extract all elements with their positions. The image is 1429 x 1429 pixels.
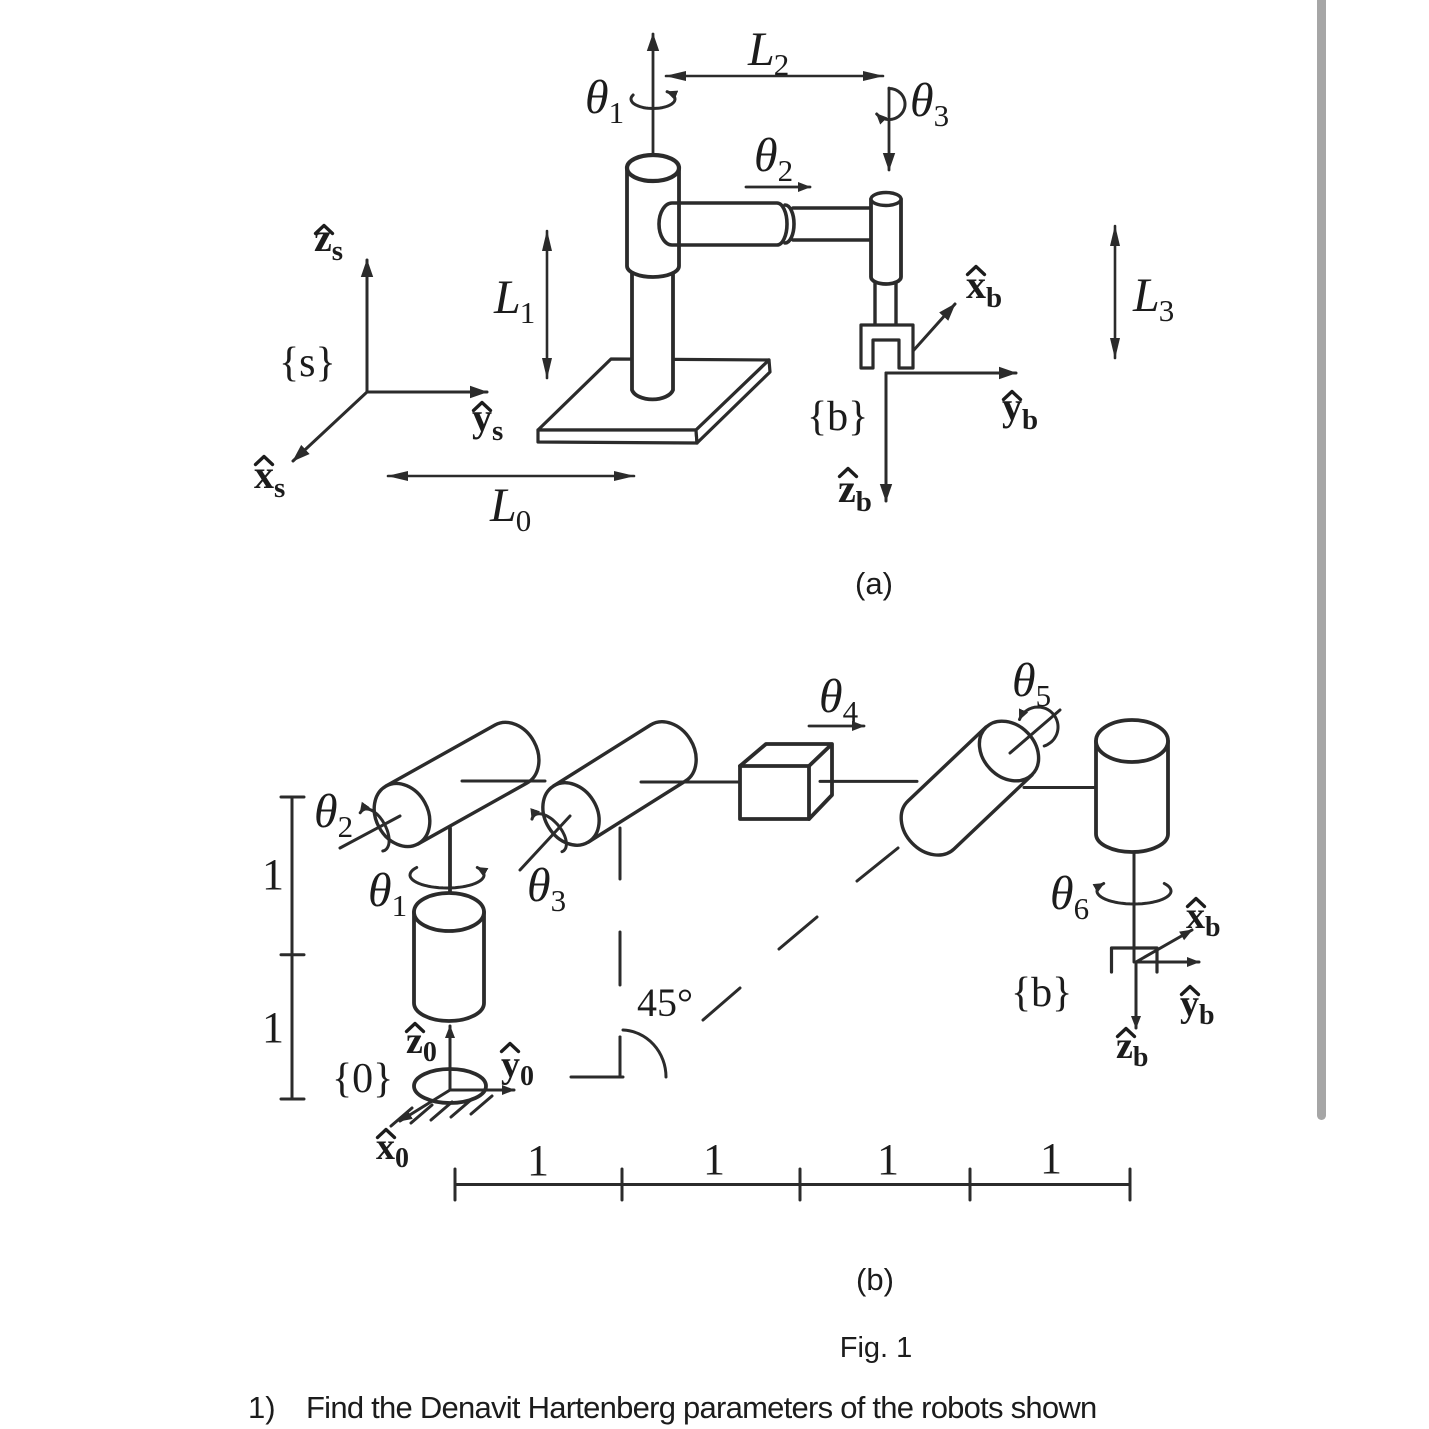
- corner and ground line 45: [571, 1037, 623, 1077]
- scale label 1 d: [1040, 1134, 1062, 1183]
- svg-text:ys: ys: [472, 395, 503, 447]
- label xb hat (b): [1186, 895, 1221, 943]
- label theta3: [910, 74, 949, 133]
- rotation symbol theta3: [520, 814, 570, 870]
- label theta3 (b): [527, 859, 566, 918]
- frame s axis zs: [366, 260, 369, 392]
- base plate right edge face: [696, 360, 770, 443]
- svg-text:1): 1): [248, 1390, 276, 1425]
- frame s axis xs: [293, 392, 367, 461]
- base cylinder top ellipse: [414, 893, 484, 931]
- axis line segment C cube to joint5: [820, 780, 917, 783]
- cylinder link6 top ellipse: [1096, 720, 1168, 762]
- link1 wide cylinder: [627, 168, 679, 277]
- angle arc 45: [623, 1030, 666, 1077]
- link3 lower rod: [875, 283, 896, 325]
- svg-text:(a): (a): [855, 566, 893, 601]
- svg-text:{s}: {s}: [279, 340, 336, 386]
- frame s axis ys: [367, 391, 487, 394]
- left dimension bar line: [281, 797, 304, 1099]
- frame 0 axis x0: [400, 1090, 450, 1121]
- svg-text:{0}: {0}: [332, 1056, 393, 1102]
- svg-text:1: 1: [262, 1003, 284, 1052]
- label theta4: [819, 670, 859, 729]
- arm link2 thick cylinder: [659, 203, 787, 245]
- arm sleeve joint arcs: [785, 205, 794, 243]
- scrollbar: [1317, 0, 1326, 1120]
- cylinder link6: [1096, 741, 1168, 852]
- svg-text:1: 1: [262, 850, 284, 899]
- frame b2 axis yb: [1136, 961, 1199, 964]
- label theta2: [754, 129, 793, 188]
- svg-text:Fig. 1: Fig. 1: [840, 1332, 913, 1364]
- svg-text:θ1: θ1: [585, 71, 624, 130]
- svg-text:L2: L2: [747, 23, 789, 82]
- svg-text:θ2: θ2: [754, 129, 793, 188]
- label 1 upper: [262, 850, 284, 899]
- label x0 hat: [376, 1126, 409, 1174]
- caption Fig. 1: [840, 1332, 913, 1364]
- frame b2 axis zb: [1135, 962, 1138, 1028]
- frame b2 axis xb: [1136, 930, 1192, 962]
- label theta2 (b): [314, 785, 353, 844]
- prismatic cube joint4: [740, 744, 832, 819]
- base cylinder (b): [414, 912, 484, 1021]
- label L3: [1132, 269, 1174, 328]
- link3 cylinder top ellipse: [871, 193, 901, 206]
- caption (b): [856, 1262, 894, 1297]
- label frame s: [279, 340, 336, 386]
- label yb hat (b): [1180, 983, 1215, 1031]
- label frame 0: [332, 1056, 393, 1102]
- link1 cylinder top ellipse: [627, 155, 679, 181]
- svg-text:zs: zs: [314, 215, 343, 267]
- rotation arrow theta1: [631, 92, 675, 109]
- cylinder joint3: [531, 722, 696, 856]
- arrow theta4: [809, 725, 864, 728]
- svg-text:θ3: θ3: [910, 74, 949, 133]
- rotation symbol theta2: [340, 809, 400, 851]
- label theta6: [1050, 867, 1089, 926]
- axis line segment D joint5 to link6: [1024, 786, 1098, 789]
- label zs hat: [314, 215, 343, 267]
- axis line theta6: [1133, 852, 1136, 962]
- frame b axis zb: [885, 373, 888, 501]
- ground disc: [414, 1069, 486, 1103]
- end effector bracket (b): [1112, 948, 1158, 972]
- dimension L2 double arrow: [666, 75, 883, 78]
- label xs hat: [254, 452, 285, 504]
- dashed diagonal 45 line: [703, 848, 898, 1020]
- column link0 cylinder: [632, 272, 673, 399]
- svg-text:{b}: {b}: [807, 394, 868, 440]
- rotation arrow theta1 (b): [410, 868, 484, 889]
- dimension L0 double arrow: [388, 475, 634, 478]
- ground hatching: [391, 1096, 492, 1126]
- label theta5: [1012, 654, 1051, 713]
- label y0 hat: [501, 1044, 534, 1093]
- frame 0 axis z0: [449, 1026, 452, 1090]
- label z0 hat: [406, 1020, 437, 1068]
- scale label 1 b: [703, 1135, 725, 1184]
- scale label 1 c: [877, 1135, 899, 1184]
- cylinder joint2: [363, 722, 539, 856]
- dimension L3 double arrow: [1114, 226, 1117, 358]
- gripper bracket: [861, 325, 913, 368]
- label yb hat: [1002, 384, 1038, 436]
- svg-text:Find the Denavit Hartenberg pa: Find the Denavit Hartenberg parameters o…: [306, 1390, 1097, 1425]
- link3 small cylinder: [871, 199, 901, 284]
- base plate front edge face: [538, 430, 697, 443]
- svg-text:(b): (b): [856, 1262, 894, 1297]
- svg-text:θ3: θ3: [527, 859, 566, 918]
- svg-text:θ1: θ1: [368, 864, 407, 923]
- svg-text:yb: yb: [1002, 384, 1038, 436]
- question text: [248, 1390, 1097, 1425]
- svg-text:L3: L3: [1132, 269, 1174, 328]
- caption (a): [855, 566, 893, 601]
- label L0: [489, 479, 531, 538]
- cylinder joint5: [901, 709, 1050, 855]
- arm link2 thin rod: [793, 208, 871, 240]
- label ys hat: [472, 395, 503, 447]
- svg-text:θ6: θ6: [1050, 867, 1089, 926]
- label 45 degrees: [637, 980, 693, 1025]
- frame b axis yb: [886, 372, 1016, 375]
- svg-text:{b}: {b}: [1011, 970, 1072, 1016]
- svg-text:θ2: θ2: [314, 785, 353, 844]
- label zb hat (b): [1116, 1025, 1148, 1073]
- label zb hat: [838, 466, 872, 518]
- label frame b: [807, 394, 868, 440]
- joint axis theta3 arrow down: [888, 88, 891, 170]
- label frame b (b): [1011, 970, 1072, 1016]
- scale label 1 a: [527, 1136, 549, 1185]
- svg-text:1: 1: [1040, 1134, 1062, 1183]
- label 1 lower: [262, 1003, 284, 1052]
- bottom scale bar: [455, 1169, 1130, 1200]
- label xb hat: [966, 262, 1002, 314]
- svg-text:L1: L1: [493, 271, 535, 330]
- frame 0 axis y0: [450, 1089, 514, 1092]
- dimension L1 double arrow: [546, 231, 549, 378]
- label L2: [747, 23, 789, 82]
- rotation arrow theta6: [1097, 884, 1171, 905]
- svg-text:θ5: θ5: [1012, 654, 1051, 713]
- svg-text:θ4: θ4: [819, 670, 859, 729]
- base plate top face: [538, 359, 769, 430]
- svg-text:1: 1: [703, 1135, 725, 1184]
- label theta1: [585, 71, 624, 130]
- svg-text:L0: L0: [489, 479, 531, 538]
- axis line theta1 (b): [448, 828, 452, 908]
- axis line segment B: [641, 781, 740, 784]
- dashed vertical line: [619, 828, 622, 1077]
- arrow theta2: [746, 186, 810, 189]
- svg-text:45°: 45°: [637, 980, 693, 1025]
- label L1: [493, 271, 535, 330]
- joint axis theta1 vertical line: [652, 34, 655, 155]
- frame b axis xb: [913, 304, 955, 351]
- svg-text:1: 1: [527, 1136, 549, 1185]
- rotation arrow theta3: [877, 89, 905, 120]
- rotation symbol theta5: [1010, 707, 1060, 753]
- svg-text:1: 1: [877, 1135, 899, 1184]
- label theta1 (b): [368, 864, 407, 923]
- axis line segment A: [462, 780, 545, 783]
